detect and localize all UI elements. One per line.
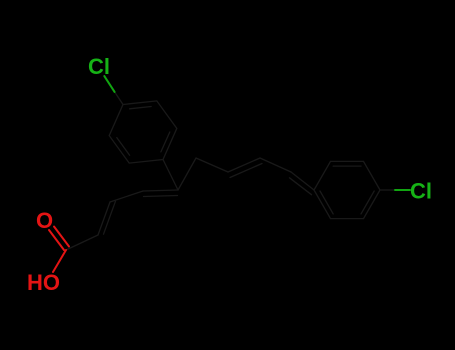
- svg-text:O: O: [36, 208, 53, 233]
- svg-text:Cl: Cl: [88, 54, 110, 79]
- svg-text:HO: HO: [27, 270, 60, 295]
- svg-text:Cl: Cl: [410, 179, 432, 204]
